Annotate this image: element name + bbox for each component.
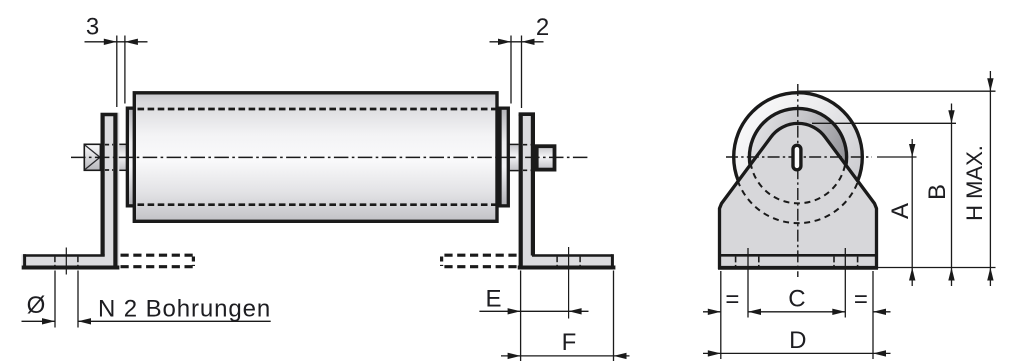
svg-text:H MAX.: H MAX. [962,145,987,221]
svg-text:D: D [789,327,806,354]
svg-text:2: 2 [536,14,549,41]
svg-text:3: 3 [86,13,99,40]
svg-text:Ø: Ø [27,292,46,319]
svg-text:=: = [725,286,739,313]
svg-text:B: B [924,184,951,200]
svg-text:N 2 Bohrungen: N 2 Bohrungen [98,296,271,323]
svg-text:E: E [485,286,501,313]
svg-text:C: C [788,285,805,312]
svg-text:A: A [887,203,914,219]
svg-text:=: = [854,286,868,313]
svg-text:F: F [562,329,577,356]
